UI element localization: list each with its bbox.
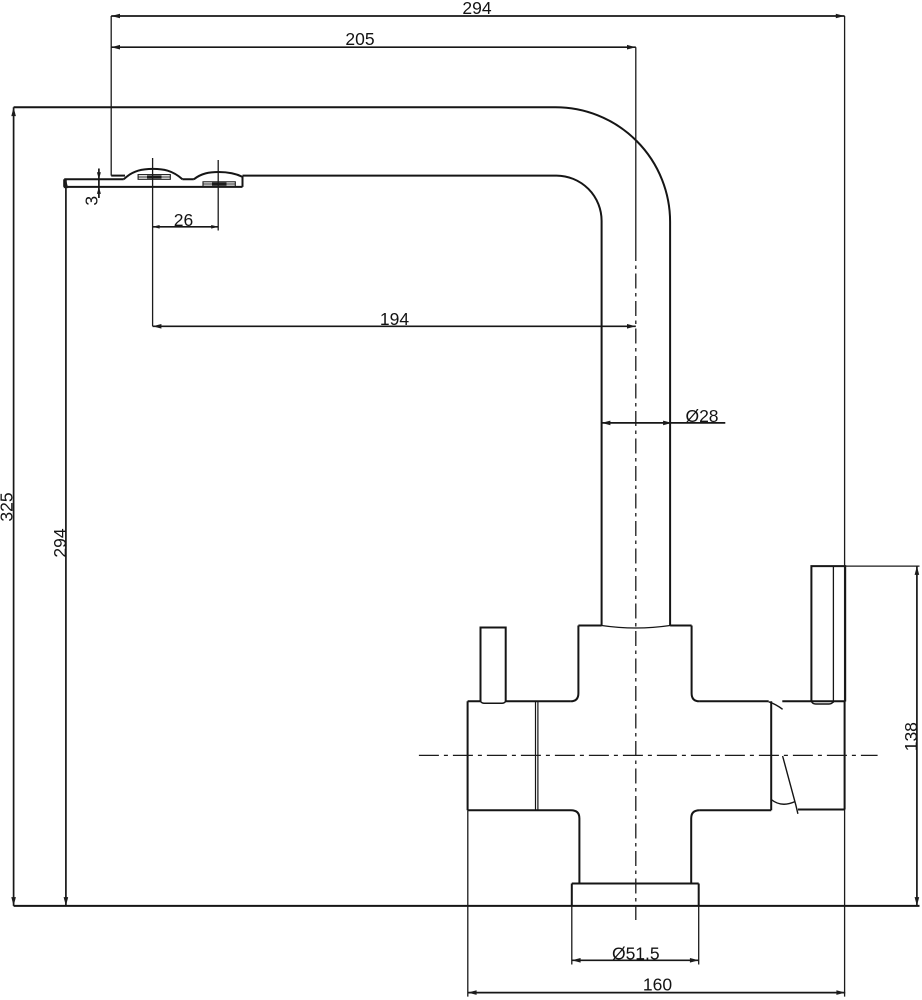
- left handle (filter) body white fill: [481, 628, 506, 704]
- base flange side edges: [572, 884, 699, 906]
- spout inner contour (underside line, elbow arc, left tube edge): [243, 176, 602, 626]
- arrowheads dim 205: [111, 45, 120, 50]
- dim 26: right extension (bump2 centerline): [217, 160, 219, 231]
- spout tip underside stub at tube end: [111, 175, 125, 177]
- aerator plate left end edge: [63, 179, 65, 187]
- cross arm top edges: [468, 700, 769, 702]
- svg-text:Ø28: Ø28: [685, 406, 718, 426]
- right joint boundary vertical: [770, 701, 772, 810]
- left block / arm seam double line: [536, 701, 538, 810]
- svg-text:294: 294: [50, 528, 70, 557]
- dim 294 top: right extension line (shared with 160): [844, 16, 846, 997]
- arrowheads dim 3: [97, 172, 101, 179]
- left handle bottom arc: [481, 701, 506, 703]
- dim 294 top: left extension line: [110, 16, 112, 176]
- lever joint slant line: [783, 756, 798, 814]
- right lever handle outline: [811, 566, 845, 701]
- left block left edge: [467, 701, 469, 810]
- horizontal centerline of body: [419, 754, 878, 756]
- arrowheads dim 138: [915, 566, 920, 575]
- dim O51.5: line: [572, 959, 699, 961]
- aerator bump 2 dome: [194, 172, 243, 187]
- body neck sides with fillets to cross arm: [570, 626, 699, 702]
- lever joint bottom arc: [771, 800, 795, 805]
- right lever handle bottom arc: [811, 701, 833, 704]
- arrowheads dim 26: [153, 225, 160, 229]
- body neck top shoulder: [578, 625, 691, 627]
- svg-text:160: 160: [643, 975, 672, 995]
- lever joint dome curve: [769, 702, 783, 710]
- svg-text:26: 26: [174, 210, 193, 230]
- svg-text:325: 325: [0, 492, 17, 521]
- vertical centerline of spout (solid ext then dash-dot): [635, 47, 637, 920]
- svg-text:205: 205: [345, 29, 374, 49]
- dim 160: left extension line: [467, 810, 469, 996]
- svg-text:138: 138: [901, 722, 921, 751]
- dim 205: line: [111, 46, 636, 48]
- aerator insert 1 hatched: [138, 175, 170, 180]
- dim 160: line: [468, 992, 845, 994]
- spout outer contour (top line, elbow arc, right tube edge): [14, 107, 671, 625]
- arrowheads dim 294 top: [111, 14, 120, 19]
- arrowheads dim 194: [153, 324, 162, 329]
- right lever handle inner edge line: [832, 566, 834, 703]
- arrowheads dim O28: [602, 421, 611, 426]
- right block top edge: [782, 700, 844, 702]
- arrowheads dim 160: [468, 990, 477, 995]
- left block and arm bottom edges: [468, 809, 772, 811]
- aerator insert 2 hatched: [203, 182, 235, 187]
- svg-text:Ø51.5: Ø51.5: [612, 943, 660, 963]
- lower neck with fillets down to flange: [571, 810, 700, 883]
- aerator bump 1 dome: [124, 169, 183, 179]
- tube/neck joint ellipse edge: [602, 626, 671, 629]
- arrowheads dim O51.5: [572, 958, 581, 963]
- svg-text:3: 3: [82, 196, 102, 206]
- dim 294 left: vertical line: [65, 179, 67, 906]
- dim 3: vertical line: [98, 169, 100, 199]
- svg-text:294: 294: [462, 0, 491, 18]
- svg-text:194: 194: [380, 309, 409, 329]
- dim 138: top extension line: [811, 565, 919, 567]
- dim 294 top: line: [111, 15, 844, 17]
- dim 26 / 194: left extension (bump1 centerline): [152, 158, 154, 326]
- right block right edge: [844, 701, 846, 809]
- right block bottom edge: [798, 809, 845, 811]
- aerator plate bottom edge: [64, 186, 242, 188]
- base flange top edge: [572, 883, 699, 885]
- dim O51.5: extension lines: [572, 906, 699, 965]
- arrowheads dim 325: [11, 107, 16, 116]
- arrowheads dim 294 left: [64, 179, 69, 188]
- dim 138: line: [916, 566, 918, 906]
- left handle (filter) outline: [481, 628, 506, 702]
- dim 325: vertical line: [13, 107, 15, 906]
- dim 194: line: [153, 325, 636, 327]
- mounting plane line: [14, 905, 920, 907]
- aerator plate top edge: [64, 178, 194, 180]
- dim 26: line: [153, 226, 219, 228]
- dim O28: line and leader: [602, 422, 726, 424]
